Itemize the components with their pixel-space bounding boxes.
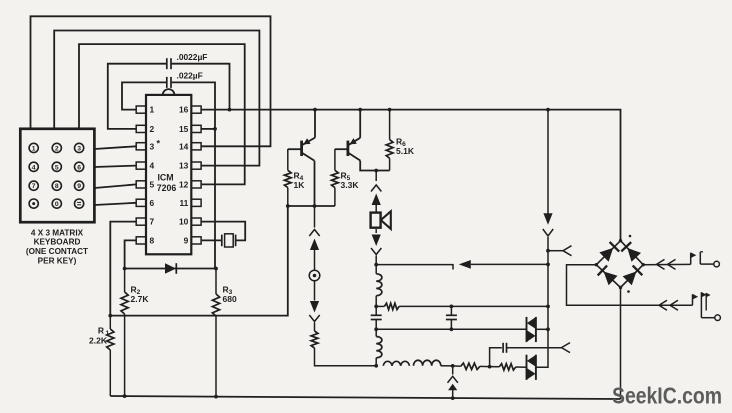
svg-text:9: 9 [184, 236, 189, 246]
wire pin 15 stub to vertical [201, 128, 215, 130]
wire keyboard row1 to pin 3 [94, 146, 136, 149]
wire bridge left to ring [567, 265, 693, 306]
resistor R3 680 [212, 269, 219, 397]
svg-text:3.3K: 3.3K [341, 180, 360, 190]
transistor Q1 [288, 110, 315, 206]
connector chevron above speaker [371, 185, 381, 192]
resistor R2 2.7K [121, 269, 128, 397]
junction bus/pin16 net [546, 108, 550, 112]
wire keyboard row3 to pin 5 [94, 184, 136, 188]
svg-text:R: R [98, 326, 104, 336]
microphone MIC1 [309, 270, 320, 281]
svg-text:12: 12 [179, 180, 189, 190]
wire bus upper [547, 110, 549, 217]
svg-text:KEYBOARD: KEYBOARD [34, 238, 81, 247]
inductor L1 [376, 274, 382, 296]
junction R3/pin15 net [214, 267, 218, 271]
junction R2/rail [123, 394, 127, 398]
resistor R8 [384, 303, 399, 309]
chevrons on ring line [659, 300, 678, 310]
connector arrow at ground tap [448, 384, 457, 398]
svg-text:.022µF: .022µF [177, 71, 203, 81]
resistor R7 microphone [311, 331, 318, 348]
resistor R4 1K [284, 149, 291, 206]
junction C4 top [450, 305, 454, 309]
wire R4-R5 bottom row [286, 204, 335, 208]
asterisk mark at pin 3 [157, 139, 161, 149]
arrow annotation to node A [459, 260, 548, 269]
svg-text:PER KEY): PER KEY) [38, 257, 77, 266]
svg-text:7: 7 [150, 217, 155, 227]
bridge diode D7 [623, 266, 643, 286]
svg-text:14: 14 [179, 141, 189, 151]
wire node B run [376, 305, 384, 307]
junction bus/node B run [546, 305, 550, 309]
svg-text:6: 6 [77, 164, 81, 171]
wire C4 to vertical bus [451, 305, 548, 307]
junction bus stub [546, 249, 550, 253]
svg-text:8: 8 [150, 236, 155, 246]
diac D2 [527, 317, 536, 342]
transistor Q2 [335, 110, 390, 171]
fork connector F1 [563, 246, 572, 256]
wire bottom rail [110, 396, 620, 399]
svg-text:1K: 1K [294, 180, 306, 190]
bridge diode D6 [598, 266, 618, 286]
svg-text:9: 9 [77, 183, 81, 190]
wire pin 2 to capacitor C1 [108, 64, 166, 129]
svg-text:2.2K: 2.2K [89, 336, 108, 346]
keyboard caption [26, 228, 88, 265]
svg-text:3: 3 [150, 141, 155, 151]
junction Q1 emitter/pin16 net [313, 108, 317, 112]
connector arrow above speaker [372, 194, 381, 214]
label R3 [223, 285, 237, 305]
polarity mark plus [629, 235, 632, 238]
watermark [612, 383, 722, 409]
connector arrow on bus [543, 213, 552, 225]
wire node A run with hook [376, 265, 453, 270]
wire bus lower [536, 237, 548, 367]
junction chevron node [451, 364, 455, 368]
wire pin 16 net [201, 110, 620, 241]
svg-text:4: 4 [150, 161, 155, 171]
bridge rectifier frame [595, 239, 645, 289]
svg-text:6: 6 [150, 198, 155, 208]
svg-text:13: 13 [179, 161, 189, 171]
svg-text:11: 11 [179, 198, 188, 208]
resistor R6 5.1K [386, 110, 393, 171]
wire diode row [125, 268, 216, 270]
svg-text:2.7K: 2.7K [131, 294, 150, 304]
connector chevron on bus [543, 229, 553, 236]
junction bus/node C run [546, 327, 550, 331]
svg-text:3: 3 [77, 145, 81, 152]
junction pin8/R2 [123, 267, 127, 271]
connector arrow below speaker [372, 229, 381, 246]
svg-text:ICM: ICM [157, 173, 173, 183]
wire C5 to fork [507, 347, 562, 349]
wire node C run [376, 328, 526, 330]
keypad keys [29, 143, 84, 208]
junction speaker branch [374, 169, 378, 173]
capacitor C3 [371, 306, 382, 329]
svg-text:16: 16 [179, 105, 189, 115]
wire keyboard col3 loop to pin 12 [79, 44, 245, 184]
junction ground tap/rail [451, 396, 455, 400]
label R4 [294, 171, 306, 191]
diode D1 [165, 263, 176, 274]
junction node C [374, 327, 378, 331]
svg-text:4: 4 [32, 164, 36, 171]
label .022uF [177, 71, 203, 81]
junction R3/rail [214, 395, 218, 399]
ring plug P2 [693, 292, 721, 321]
label R5 [341, 171, 360, 191]
speaker LS1 [371, 211, 391, 229]
wire to speaker [375, 171, 377, 182]
label R1 [89, 326, 109, 346]
wire crystal to pin 10 [201, 222, 245, 241]
wire pin 9 to crystal [201, 239, 221, 241]
stub to fork connector [548, 250, 563, 252]
svg-text:2: 2 [150, 124, 155, 134]
inductor L2 [376, 329, 382, 358]
junction node D [374, 364, 378, 368]
inductor L3 [383, 361, 409, 366]
svg-text:10: 10 [179, 217, 189, 227]
junction C1/pin16 [228, 108, 232, 112]
IC pin numbers [150, 105, 189, 246]
svg-text:2: 2 [55, 145, 59, 152]
junction pin7/R1 [108, 314, 112, 318]
svg-text:1: 1 [32, 145, 36, 152]
wire bridge right to tip [643, 263, 691, 265]
junction node A [374, 263, 378, 267]
wire L1 to node B [375, 296, 377, 307]
junction C4 bottom [450, 327, 454, 331]
connector arrow below microphone [310, 281, 319, 313]
wire pin 8 down [125, 240, 137, 268]
wire R8 to C4 [399, 305, 451, 307]
svg-text:8: 8 [55, 183, 59, 190]
capacitor C1 .0022uF [167, 58, 171, 69]
wire Q1 collector down [314, 206, 316, 228]
svg-text:5.1K: 5.1K [396, 146, 415, 156]
capacitor C4 [446, 306, 457, 329]
label R2 [131, 285, 150, 305]
resistor R9 [453, 363, 490, 369]
connector chevron below speaker [371, 248, 381, 265]
junction Q2 emitter/pin16 net [358, 108, 362, 112]
svg-text:7: 7 [32, 183, 36, 190]
wire capacitor C2 down to pin 15 and R3 [172, 82, 215, 268]
wire keyboard row4 to pin 6 [94, 203, 136, 205]
junction Q1 collector [313, 204, 317, 208]
junction pin15 [213, 127, 217, 131]
wire diac1 to bus [536, 328, 548, 330]
wire keyboard col2 loop to pin 13 [54, 31, 259, 166]
label R6 [396, 137, 415, 157]
wire node A down [375, 265, 377, 274]
wire pin 7 down [110, 222, 136, 316]
capacitor C5 branch [490, 348, 502, 367]
resistor R1 2.2K [107, 316, 114, 396]
polarity mark minus [627, 290, 630, 293]
capacitor C5 [503, 343, 506, 353]
svg-text:7206: 7206 [157, 183, 177, 193]
wire L2 to node D [375, 358, 377, 366]
wire L4 to chevron node [441, 365, 453, 367]
resistor R5 3.3K [332, 149, 339, 206]
connector chevron below microphone [309, 315, 319, 331]
IC pin stubs [136, 106, 201, 244]
inductor L4 [414, 360, 441, 366]
capacitor C2 .022uF [167, 77, 171, 88]
bridge diode D5 [621, 242, 641, 262]
junction bus/node A run [546, 263, 550, 267]
resistor R10 [490, 364, 527, 370]
svg-text:(ONE CONTACT: (ONE CONTACT [26, 247, 88, 256]
svg-text:5: 5 [55, 164, 59, 171]
svg-text:0: 0 [55, 201, 59, 208]
svg-text:*: * [157, 139, 161, 149]
connector arrow above microphone [310, 239, 319, 271]
svg-text:SeekIC.com: SeekIC.com [612, 383, 722, 409]
bridge diode D4 [599, 242, 619, 262]
svg-text:4 X 3 MATRIX: 4 X 3 MATRIX [31, 228, 84, 237]
op IC U1 ICM7206 body [146, 89, 191, 254]
wire microphone branch to node [315, 348, 377, 366]
svg-text:680: 680 [223, 294, 237, 304]
svg-text:5: 5 [150, 180, 155, 190]
chevrons on tip line [657, 259, 676, 269]
wire capacitor C1 to pin16 net [172, 64, 230, 110]
junction C5 node [488, 365, 492, 369]
junction R6/pin16 net [388, 108, 392, 112]
tip plug P1 [691, 252, 720, 267]
crystal Y1 [222, 234, 236, 247]
IC label ICM 7206 [157, 173, 177, 194]
junction node B [374, 305, 378, 309]
fork connector F2 [562, 343, 571, 353]
wire pin7 net to transistor bias [110, 206, 287, 316]
wire keyboard row2 to pin 4 [94, 166, 136, 167]
svg-text:1: 1 [150, 105, 155, 115]
wire keyboard col1 loop to pin 14 [31, 16, 271, 146]
svg-text:.0022µF: .0022µF [177, 52, 208, 62]
connector chevron at ground tap [448, 366, 458, 383]
svg-text:15: 15 [179, 124, 189, 134]
label .0022uF [177, 52, 208, 62]
diac D3 [527, 355, 536, 380]
wire bridge bottom to rail [620, 288, 622, 400]
keyboard 4x3 matrix box [20, 129, 94, 222]
wire pin 1 to capacitor C2 [122, 82, 166, 109]
connector chevron above microphone [309, 230, 319, 237]
